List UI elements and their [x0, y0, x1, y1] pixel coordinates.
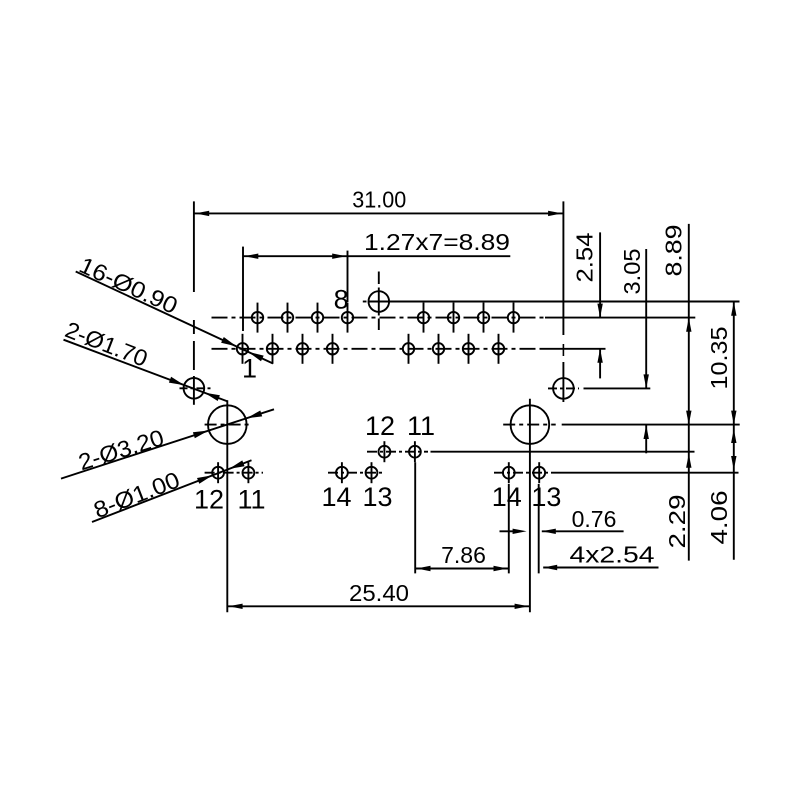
- reference line C2 row right: [390, 301, 740, 303]
- medium hole C1 left Ø1.70: [180, 320, 212, 405]
- mounting hole B2 Ø3.20: [503, 399, 556, 613]
- dimension 3.05: [619, 249, 649, 454]
- bottom pin row centerline: [212, 348, 541, 350]
- pin hole bottom-right 4 Ø0.90: [493, 334, 504, 364]
- pin hole top-left 2 Ø0.90: [282, 303, 293, 333]
- svg-text:31.00: 31.00: [352, 187, 406, 213]
- dimension 0.76: [500, 506, 624, 534]
- mounting hole B1 Ø3.20: [205, 400, 252, 612]
- reference line mid-upper row right: [431, 451, 695, 453]
- reference line bottom row right: [552, 472, 739, 474]
- pin hole bottom-right 3 Ø0.90: [463, 334, 474, 364]
- pin hole top-right 4 Ø0.90: [508, 303, 519, 333]
- svg-text:10.35: 10.35: [706, 327, 732, 390]
- svg-text:14: 14: [321, 482, 351, 512]
- svg-text:2.54: 2.54: [572, 232, 598, 282]
- extension line pin13 right: [538, 484, 540, 573]
- svg-text:16-Ø0.90: 16-Ø0.90: [75, 252, 181, 319]
- leader 2-Ø3.20: [61, 409, 274, 478]
- svg-text:2-Ø1.70: 2-Ø1.70: [62, 316, 152, 371]
- svg-text:11: 11: [237, 484, 265, 514]
- svg-text:2-Ø3.20: 2-Ø3.20: [75, 424, 167, 475]
- pin hole top-right 1 Ø0.90: [418, 303, 429, 333]
- mid-lower pair holes Ø1.00: [328, 462, 385, 483]
- svg-text:12: 12: [194, 484, 224, 514]
- svg-text:8: 8: [334, 285, 349, 315]
- pin hole top-right 3 Ø0.90: [478, 303, 489, 333]
- svg-text:13: 13: [362, 482, 392, 512]
- C3 centerline extension right: [584, 387, 651, 389]
- pin hole top-left 1 Ø0.90: [252, 303, 263, 333]
- svg-text:13: 13: [531, 482, 561, 512]
- svg-text:8.89: 8.89: [661, 225, 687, 277]
- svg-text:4.06: 4.06: [706, 491, 732, 545]
- svg-text:1: 1: [242, 354, 257, 384]
- dimension 8.89 and 2.29: [661, 224, 692, 561]
- pin hole bottom-left 4 Ø0.90: [327, 334, 338, 364]
- medium hole C2 top-middle Ø1.70: [363, 272, 397, 331]
- pin hole bottom-right 1 Ø0.90: [403, 334, 414, 364]
- svg-text:7.86: 7.86: [441, 542, 486, 568]
- dimension 7.86: [415, 542, 509, 571]
- svg-text:8-Ø1.00: 8-Ø1.00: [90, 466, 183, 523]
- pin hole bottom-left 2 Ø0.90: [267, 334, 278, 364]
- extension line pin14 right: [508, 484, 510, 573]
- leader 2-Ø1.70: [62, 316, 228, 401]
- svg-text:2.29: 2.29: [664, 495, 690, 549]
- pin hole bottom-right 2 Ø0.90: [433, 334, 444, 364]
- bottom-left pair holes Ø1.00: [205, 462, 263, 483]
- svg-text:11: 11: [407, 411, 435, 441]
- dimension 1.27x7=8.89: [243, 229, 510, 331]
- svg-text:12: 12: [365, 411, 395, 441]
- top pin row centerline: [212, 317, 546, 319]
- pin hole top-left 4 Ø0.90: [342, 303, 353, 333]
- medium hole C3 right Ø1.70: [548, 344, 579, 402]
- reference line mounting row right: [562, 424, 740, 426]
- dimension 25.40: [227, 580, 530, 609]
- svg-text:25.40: 25.40: [349, 580, 409, 606]
- dimension 31.00 top: [194, 187, 564, 335]
- bottom-right pair holes Ø1.00: [494, 462, 552, 483]
- leader 8-Ø1.00: [90, 460, 252, 523]
- pin hole bottom-left 1 Ø0.90: [237, 334, 248, 364]
- pin hole top-left 3 Ø0.90: [312, 303, 323, 333]
- svg-text:14: 14: [492, 482, 522, 512]
- svg-text:3.05: 3.05: [619, 249, 645, 295]
- dimension 10.35 and 4.06: [706, 302, 737, 560]
- pin hole top-right 2 Ø0.90: [448, 303, 459, 333]
- svg-text:1.27x7=8.89: 1.27x7=8.89: [364, 229, 510, 255]
- dimension 4x2.54: [543, 542, 658, 571]
- mid-upper pair holes Ø1.00: [367, 441, 428, 462]
- leader 16-Ø0.90: [75, 252, 273, 364]
- extension line pin11 mid-upper: [414, 462, 416, 573]
- svg-text:4x2.54: 4x2.54: [570, 542, 655, 568]
- dimension 2.54: [572, 232, 603, 378]
- pin hole bottom-left 3 Ø0.90: [297, 334, 308, 364]
- svg-text:0.76: 0.76: [572, 506, 617, 532]
